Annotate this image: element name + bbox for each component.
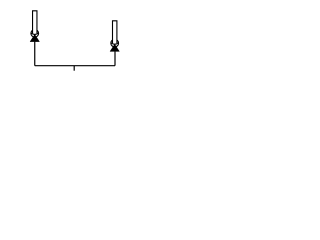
wire : bottom horizontal bus [35,65,115,67]
thermometer probe TH2 (right) : stem tube [113,21,117,43]
thermometer probe TH1 (left) : stem tube [33,11,37,33]
thermometer probe TH2 (right) : contact arrow [110,44,119,51]
thermometer probe TH2 (right) : meniscus arc in bulb [111,43,118,44]
background [0,0,150,84]
thermometer probe TH1 (left) : meniscus arc in bulb [31,33,38,34]
thermometer probe TH1 (left) : contact arrow [30,35,39,42]
thermometer probe TH1 (left) : bulb [31,29,39,37]
thermometer probe TH2 (right) : bulb [111,39,119,47]
wire : TH2 lead down [114,51,116,65]
node stub : center terminal tick [73,66,75,71]
wire : TH1 lead down [34,42,36,66]
